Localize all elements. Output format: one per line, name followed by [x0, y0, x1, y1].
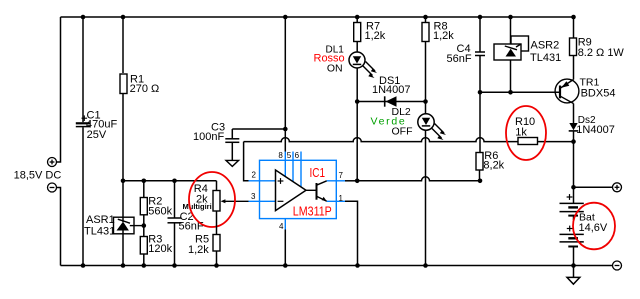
junction C4 base wire	[478, 90, 483, 95]
svg-text:5: 5	[287, 151, 292, 160]
svg-text:ASR1: ASR1	[86, 214, 115, 226]
junction R6 bottom	[478, 179, 483, 184]
svg-text:25V: 25V	[87, 129, 107, 141]
svg-text:1,2k: 1,2k	[188, 244, 209, 256]
junction bottom rail R3	[142, 263, 147, 268]
junction bottom rail C2	[172, 263, 177, 268]
wire bottom ground rail	[61, 265, 613, 267]
IC1 output transistor	[306, 181, 327, 202]
junction C3 to IC supply column	[283, 127, 288, 132]
svg-text:1k: 1k	[515, 126, 527, 138]
svg-text:OFF: OFF	[392, 126, 413, 138]
junction top rail C4	[478, 15, 483, 20]
wire Ds2 node to battery node	[573, 142, 575, 188]
IC1 pin 5 blue	[292, 152, 294, 182]
junction bottom rail DL2	[423, 263, 428, 268]
junction bottom rail C1	[81, 263, 86, 268]
junction pin 7 node	[355, 179, 360, 184]
resistor R7	[354, 17, 386, 52]
junction top rail C1	[81, 15, 86, 20]
resistor R2	[140, 181, 172, 218]
wire pin7 node up to DS1	[356, 102, 358, 181]
ground symbol bottom right	[567, 266, 580, 285]
wire C4 column to R6	[479, 92, 481, 152]
op-amp triangle IC1	[276, 170, 307, 211]
junction ASR2 base wire	[508, 90, 513, 95]
svg-text:18,5V DC: 18,5V DC	[14, 170, 62, 182]
junction top rail R9	[571, 15, 576, 20]
wire pin 1 to bottom rail	[345, 201, 358, 265]
IC1 pin 1 blue	[327, 200, 345, 202]
junction bottom rail pin1	[355, 263, 360, 268]
svg-text:Multigiri: Multigiri	[183, 202, 212, 211]
LED DL2	[418, 102, 446, 266]
svg-text:270 Ω: 270 Ω	[130, 83, 160, 95]
capacitor C1	[76, 17, 118, 266]
svg-text:4: 4	[279, 222, 284, 231]
wire R2 to R3	[143, 215, 145, 237]
wire to plus output	[574, 186, 613, 188]
ground symbol C3	[226, 160, 239, 166]
shunt regulator ASR2 TL431	[494, 17, 561, 92]
svg-text:120k: 120k	[148, 243, 172, 255]
IC1 pin 8 blue	[284, 152, 286, 177]
svg-text:2: 2	[252, 171, 257, 180]
svg-text:LM311P: LM311P	[293, 205, 332, 219]
svg-text:BDX54: BDX54	[581, 87, 616, 99]
junction DS1 anode	[355, 99, 360, 104]
wire R4 to R5	[216, 211, 218, 235]
capacitor C2	[168, 181, 204, 266]
red ellipse around battery	[573, 203, 615, 250]
svg-text:56nF: 56nF	[447, 53, 472, 65]
svg-text:6: 6	[295, 151, 300, 160]
svg-text:7: 7	[339, 171, 344, 180]
resistor R8	[422, 17, 454, 102]
junction divider midpoint	[142, 223, 147, 228]
wire plus input to top rail	[57, 17, 61, 162]
junction bottom rail pin4	[283, 263, 288, 268]
junction R2 top	[142, 179, 147, 184]
junction Ds2 R10	[571, 139, 576, 144]
svg-text:100nF: 100nF	[193, 131, 224, 143]
junction top rail R8	[423, 15, 428, 20]
wire pin 7 to junction	[345, 180, 357, 182]
svg-text:8: 8	[278, 151, 283, 160]
svg-text:8.2 Ω 1W: 8.2 Ω 1W	[578, 47, 625, 59]
junction battery bottom	[571, 263, 576, 268]
diode Ds2	[569, 115, 615, 142]
wire R10 right to Ds2 junction	[538, 141, 574, 143]
wire divider row	[123, 180, 217, 182]
junction R1-ASR1-divider	[121, 179, 126, 184]
LED DL1	[349, 52, 377, 102]
svg-text:1N4007: 1N4007	[372, 84, 411, 96]
resistor R10	[515, 116, 538, 144]
svg-text:TL431: TL431	[84, 226, 115, 238]
junction top rail R7	[355, 15, 360, 20]
shunt regulator ASR1 TL431	[84, 214, 134, 266]
svg-text:IC1: IC1	[310, 166, 326, 180]
resistor R3	[140, 233, 172, 265]
trimmer R4	[183, 181, 249, 211]
red ellipse around R10	[506, 106, 546, 160]
junction bottom rail R5	[214, 263, 219, 268]
wire ASR1 reference to divider	[130, 225, 144, 227]
terminal + output	[613, 183, 622, 192]
resistor R6	[476, 150, 505, 181]
wire top rail to IC pin 8	[284, 17, 286, 152]
capacitor C3	[193, 121, 285, 160]
wire top supply rail	[61, 16, 574, 18]
op-amp plus mark	[278, 178, 284, 184]
terminal - output	[613, 261, 622, 270]
svg-text:8,2k: 8,2k	[483, 159, 504, 171]
svg-text:3: 3	[251, 192, 256, 201]
junction DS1 cathode DL2	[423, 99, 428, 104]
junction bottom rail ASR1	[121, 263, 126, 268]
red ellipse around R4	[189, 172, 235, 227]
terminal + input	[48, 158, 57, 167]
IC1 blue outline box	[260, 160, 337, 218]
wire minus input to bottom rail	[57, 188, 61, 266]
op-amp minus mark	[278, 200, 284, 202]
svg-text:560k: 560k	[148, 206, 172, 218]
svg-text:ON: ON	[327, 62, 343, 74]
svg-text:1N4007: 1N4007	[576, 124, 615, 136]
wire to IC pin 2	[244, 142, 249, 181]
wire output row pin7 with hop	[357, 177, 480, 181]
resistor R1	[120, 17, 159, 217]
junction battery top	[571, 185, 576, 190]
capacitor C4	[447, 17, 486, 92]
terminal - input	[48, 183, 57, 192]
junction top rail R1	[121, 15, 126, 20]
resistor R9	[570, 17, 625, 80]
svg-text:1: 1	[339, 194, 344, 203]
IC1 pin 2 blue	[249, 180, 276, 182]
IC1 pin 6 blue	[300, 152, 302, 187]
wire feedback row with hops	[244, 138, 518, 142]
junction top rail IC supply	[283, 15, 288, 20]
junction C2 top	[172, 179, 177, 184]
diode DS1	[357, 75, 425, 107]
transistor TR1 BDX54	[555, 77, 615, 124]
svg-text:TL431: TL431	[530, 52, 561, 64]
junction top rail ASR2	[508, 15, 513, 20]
svg-text:14,6V: 14,6V	[579, 222, 608, 234]
IC1 pin 7 blue	[327, 180, 345, 182]
wire base row to TR1	[480, 91, 560, 93]
svg-text:1,2k: 1,2k	[365, 30, 386, 42]
IC1 pin 4 blue	[284, 219, 286, 230]
resistor R5	[188, 234, 220, 266]
IC1 pin 3 blue	[249, 200, 276, 202]
battery Bat 14,6V	[560, 187, 608, 265]
wire pin 4 to bottom rail	[284, 230, 286, 266]
svg-text:1,2k: 1,2k	[433, 30, 454, 42]
svg-text:ASR2: ASR2	[531, 40, 560, 52]
